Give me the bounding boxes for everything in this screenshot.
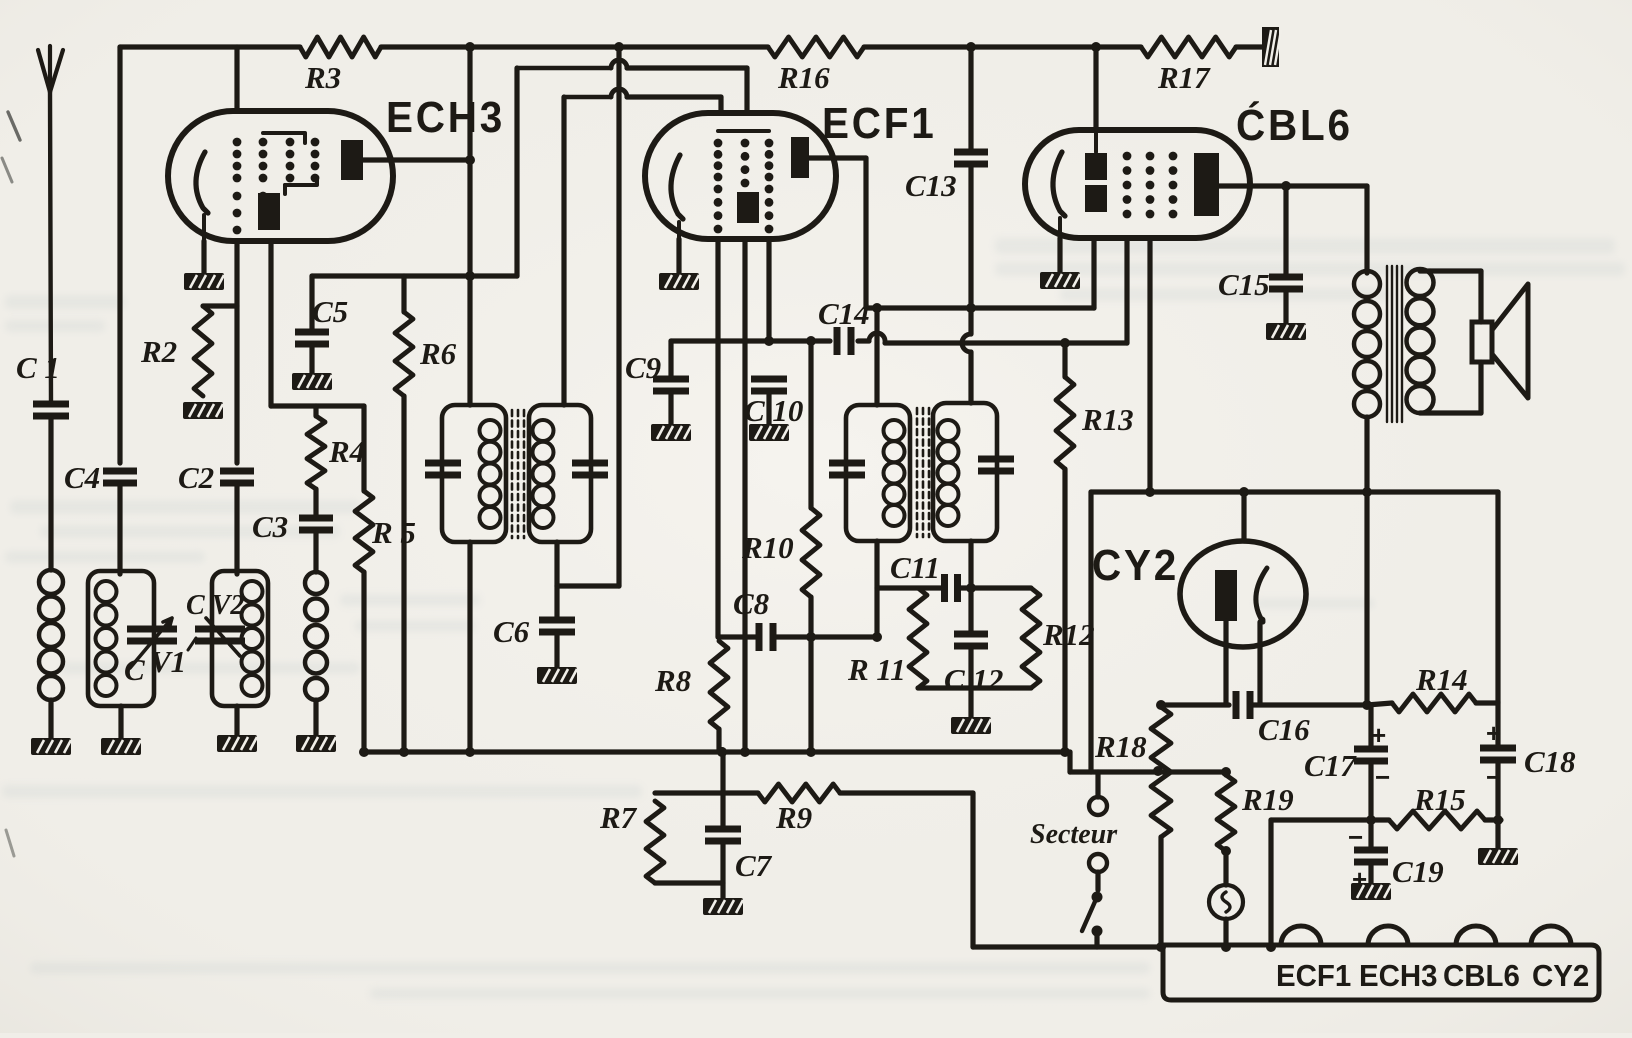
svg-text:ĆBL6: ĆBL6 — [1236, 99, 1353, 149]
svg-text:R4: R4 — [328, 434, 365, 469]
svg-text:C 1: C 1 — [16, 350, 60, 385]
svg-text:R3: R3 — [304, 60, 341, 95]
svg-text:C3: C3 — [252, 509, 288, 544]
svg-text:CY2: CY2 — [1092, 540, 1179, 589]
svg-text:R9: R9 — [775, 800, 812, 835]
svg-text:C18: C18 — [1524, 744, 1576, 779]
svg-text:R8: R8 — [654, 663, 692, 698]
svg-text:C16: C16 — [1258, 712, 1310, 747]
svg-text:−: − — [1348, 822, 1363, 852]
svg-text:+: + — [1371, 720, 1386, 750]
svg-text:ECH3: ECH3 — [1359, 959, 1438, 993]
svg-text:C4: C4 — [64, 460, 100, 495]
svg-text:Secteur: Secteur — [1030, 819, 1118, 850]
svg-text:C19: C19 — [1392, 854, 1444, 889]
svg-text:C6: C6 — [493, 614, 530, 649]
svg-text:C: C — [124, 652, 145, 687]
svg-text:R14: R14 — [1415, 662, 1468, 697]
svg-text:C 12: C 12 — [944, 662, 1003, 697]
svg-text:R19: R19 — [1241, 782, 1294, 817]
svg-text:C7: C7 — [735, 848, 773, 883]
svg-text:ECF1: ECF1 — [822, 98, 936, 147]
svg-text:R18: R18 — [1094, 729, 1147, 764]
svg-text:R2: R2 — [140, 334, 177, 369]
svg-text:R10: R10 — [741, 530, 794, 565]
svg-text:C2: C2 — [178, 460, 214, 495]
svg-text:C11: C11 — [890, 550, 940, 585]
svg-text:CBL6: CBL6 — [1443, 959, 1520, 993]
svg-text:CY2: CY2 — [1532, 959, 1589, 993]
svg-text:C14: C14 — [818, 296, 870, 331]
svg-text:ECH3: ECH3 — [386, 92, 505, 141]
svg-text:C15: C15 — [1218, 267, 1270, 302]
svg-text:R16: R16 — [777, 60, 830, 95]
svg-text:C8: C8 — [733, 586, 770, 621]
svg-text:R15: R15 — [1413, 782, 1466, 817]
svg-text:+: + — [1486, 718, 1501, 748]
svg-text:R12: R12 — [1042, 617, 1095, 652]
svg-text:R13: R13 — [1081, 402, 1134, 437]
svg-text:ECF1: ECF1 — [1276, 959, 1351, 993]
svg-text:C V2: C V2 — [186, 590, 244, 621]
svg-text:R6: R6 — [419, 336, 457, 371]
svg-text:R 11: R 11 — [847, 652, 906, 687]
svg-text:R17: R17 — [1157, 60, 1211, 95]
svg-text:C 10: C 10 — [744, 393, 803, 428]
svg-text:−: − — [1375, 762, 1390, 792]
svg-text:C17: C17 — [1304, 748, 1357, 783]
svg-text:C13: C13 — [905, 168, 957, 203]
svg-text:C5: C5 — [312, 294, 348, 329]
svg-text:R7: R7 — [599, 800, 638, 835]
svg-text:R 5: R 5 — [371, 515, 416, 550]
svg-text:V1: V1 — [150, 644, 186, 679]
